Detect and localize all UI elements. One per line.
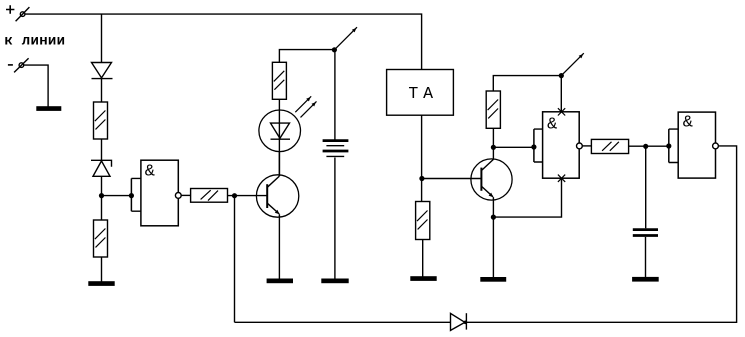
wire node B down to bottom rail [234, 196, 236, 323]
ground GND5 [411, 277, 436, 280]
svg-text:ТА: ТА [408, 84, 437, 103]
wire R4 top to switch node [279, 50, 334, 63]
wire switch node 2 down to gate top [560, 76, 562, 112]
svg-text:&: & [683, 114, 693, 133]
wire bottom rail left segment [235, 321, 451, 323]
wire gate output to R3 [181, 194, 190, 196]
svg-text:&: & [547, 115, 557, 134]
wire gate DD1.2 bottom x to node E [493, 178, 561, 217]
node F junction dot [643, 144, 648, 149]
terminal X2 minus [8, 58, 29, 72]
wire R5 to ground [422, 240, 424, 277]
wire R6 top to switch node 2 [493, 76, 561, 91]
battery GB1 [323, 141, 349, 157]
terminal X1 plus [6, 5, 29, 21]
wire R3 to transistor base [228, 195, 268, 197]
transistor VT1 [256, 152, 298, 280]
wire R2 to ground [101, 257, 103, 282]
node C junction dot [419, 176, 424, 181]
LED HL1 [259, 96, 317, 176]
wire gate DD1.2 output to R7 [582, 145, 591, 147]
ground GND3 [267, 279, 292, 282]
zener diode VD2 [91, 160, 112, 220]
wire node F down to capacitor [645, 146, 647, 228]
ground GND7 [633, 278, 658, 281]
wire minus terminal to ground [24, 65, 48, 107]
wire R6 bottom to node D [492, 128, 494, 147]
ground GND1 [37, 107, 61, 110]
ground GND2 [89, 282, 114, 285]
logic gate DD1.2 [531, 108, 582, 182]
logic gate DD1.1 [129, 160, 181, 226]
switch SA2 arrow [559, 53, 584, 78]
ground GND4 [322, 279, 348, 282]
resistor R3 [191, 189, 228, 203]
resistor R6 [486, 91, 500, 128]
capacitor C1 [633, 230, 658, 278]
node D collector junction dot [491, 145, 496, 150]
node A junction dot [99, 193, 104, 198]
resistor R4 [272, 62, 286, 99]
svg-text:&: & [145, 163, 155, 182]
logic gate DD1.3 [666, 112, 718, 178]
wire R7 to gate DD1.3 input [629, 145, 669, 147]
wire node C to VT2 base [422, 178, 482, 180]
svg-text:к линии: к линии [4, 33, 65, 49]
wire switch node to battery [334, 50, 336, 141]
diode VD3 [451, 313, 468, 330]
resistor R7 [591, 139, 628, 153]
node E emitter junction dot [491, 215, 496, 220]
node B junction dot [232, 193, 237, 198]
switch SA1 arrow [332, 27, 357, 52]
wire node D to gate DD1.2 input [493, 146, 534, 148]
wire battery to ground [334, 158, 336, 280]
wire top rail [25, 14, 422, 69]
wire node A to gate input [102, 195, 132, 197]
wire TA to R5 [421, 115, 423, 201]
diode VD1 [92, 63, 113, 103]
telephone set TA box [387, 70, 454, 116]
ground GND6 [481, 278, 506, 281]
transistor VT2 [471, 147, 512, 277]
wire gate DD1.3 output down to bottom rail [465, 146, 737, 322]
wire R1 to VD2 [101, 139, 103, 160]
resistor R5 [416, 202, 430, 240]
wire left branch down [101, 14, 103, 62]
resistor R1 [94, 102, 108, 139]
resistor R2 [94, 220, 108, 257]
